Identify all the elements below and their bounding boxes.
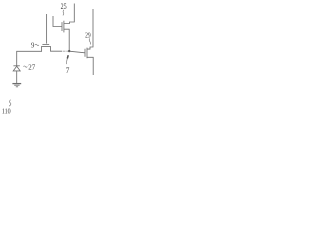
diode D27 triangle (13, 66, 20, 71)
wire Q9 right leg and wire right (51, 47, 63, 52)
leader tilde for 27 (23, 66, 27, 67)
svg-text:27: 27 (28, 63, 35, 72)
transistor Q29 gate bar (84, 49, 86, 57)
wire Q29 source arm and rail down (87, 57, 93, 75)
wire Q9 gate feed (vertical from top) (46, 14, 48, 44)
wire Q25 gate feed L (53, 16, 62, 27)
wire Q29 drain arm and rail up (87, 9, 93, 49)
transistor Q25 gate bar (61, 22, 63, 31)
svg-text:25: 25 (61, 2, 67, 11)
transistor Q9 gate bar (42, 43, 49, 45)
leader for 7 (66, 55, 69, 58)
leader tilde for 9 (35, 44, 39, 45)
wire drain rail of Q25 (vertical from top with jog) (64, 4, 74, 24)
wire Q25 source arm down to node (64, 29, 69, 51)
transistor Q9 channel bar (41, 46, 51, 48)
transistor Q29 channel bar (86, 48, 88, 59)
node junction dot (68, 50, 70, 52)
wire Q9 left leg and wire to diode (17, 47, 42, 66)
leader for 29 (89, 38, 90, 44)
wire diode to ground (16, 71, 18, 83)
wire node to Q29 gate (69, 51, 85, 53)
leader for 110 (9, 100, 11, 107)
transistor Q25 channel bar (63, 21, 65, 33)
svg-text:9: 9 (31, 41, 35, 50)
svg-text:29: 29 (85, 31, 91, 40)
svg-text:7: 7 (66, 66, 70, 75)
diode D27 cathode bar (13, 65, 19, 67)
wire dashed segment (63, 50, 69, 52)
ground (12, 83, 21, 85)
svg-text:110: 110 (2, 107, 11, 116)
leader for 25 (62, 10, 65, 16)
